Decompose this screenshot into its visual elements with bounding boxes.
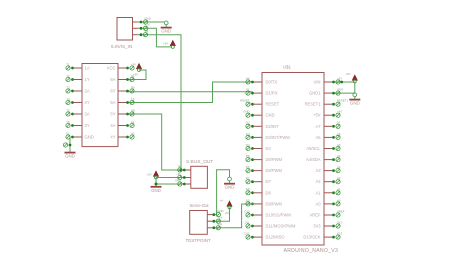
junction cluster arduino D3/INT/PWM (246, 132, 254, 140)
connector J1 pin 3 (133, 34, 138, 36)
arduino left pin D9/PWM (254, 203, 262, 205)
arduino right pin RESET1 (324, 103, 332, 105)
svg-text:+A: +A (220, 199, 224, 203)
IC U2 left pin GND (74, 136, 82, 138)
svg-text:+5V: +5V (225, 211, 230, 215)
IC U2 right pin 6A (118, 79, 126, 81)
junction cluster arduino D5/PWM (246, 154, 254, 162)
svg-text:+5V: +5V (147, 172, 152, 176)
wire +5V to servo pin2 (212, 208, 229, 222)
IC U2 right pin 4A (118, 125, 126, 127)
junction cluster J1 pin 3 (140, 29, 149, 37)
IC U2 left pin 2Y (74, 102, 82, 104)
ground symbol under U2 (65, 147, 76, 158)
junction cluster S.BUS_OUT pin 1 (178, 164, 186, 172)
arduino right pin A1 (324, 192, 332, 194)
svg-text:5A: 5A (110, 100, 115, 105)
svg-text:RESET: RESET (266, 102, 280, 107)
junction cluster U2 2A (66, 85, 74, 93)
junction cluster arduino A5/SCL (332, 143, 341, 151)
svg-text:D1: D1 (246, 88, 250, 92)
arduino right pin A3 (324, 170, 332, 172)
wire +5V to S.BUS_OUT pin2 (156, 177, 186, 179)
ground symbol right of arduino (349, 93, 360, 106)
junction cluster U2 4A (126, 120, 135, 128)
IC U2 right pin VCC (118, 67, 126, 69)
svg-text:+5V: +5V (176, 172, 181, 176)
junction cluster arduino A7 (332, 121, 341, 129)
junction at S.BUS_OUT gnd (155, 183, 158, 186)
ground symbol above servo (224, 177, 235, 190)
svg-text:5Y: 5Y (110, 112, 115, 117)
svg-text:1A: 1A (85, 66, 90, 71)
arduino right pin A0 (324, 203, 332, 205)
wire 5Y to S.BUS_OUT pin1 (126, 114, 186, 170)
svg-text:RESET1: RESET1 (337, 99, 348, 103)
svg-text:A7: A7 (337, 121, 341, 125)
connector S.BUS_OUT body (191, 166, 208, 188)
arduino left pin D1/RX (254, 92, 262, 94)
junction cluster arduino D9/PWM (246, 198, 254, 206)
svg-text:A6: A6 (315, 135, 321, 140)
svg-text:A0: A0 (315, 201, 321, 206)
svg-text:D7: D7 (246, 176, 250, 180)
IC U2 right pin 6Y (118, 90, 126, 92)
arduino left pin D5/PWM (254, 159, 262, 161)
svg-text:D0/TX: D0/TX (266, 80, 278, 85)
wire +5V to GND1 stub (354, 82, 356, 93)
svg-text:6A: 6A (110, 77, 115, 82)
arduino right pin +5V (324, 114, 332, 116)
svg-text:A5/SCL: A5/SCL (306, 146, 321, 151)
svg-text:D3/INT/PWM: D3/INT/PWM (266, 135, 291, 140)
junction on VIN wire (340, 81, 343, 84)
junction cluster arduino A6 (332, 132, 341, 140)
supply +5V at VIN (346, 72, 358, 83)
svg-text:GND: GND (151, 188, 161, 193)
svg-text:A1: A1 (315, 190, 321, 195)
svg-text:VCC: VCC (107, 66, 116, 71)
wire J1 pin1 to GND (138, 21, 165, 23)
svg-text:RESET1: RESET1 (305, 102, 322, 107)
junction cluster U2 1A (66, 62, 74, 70)
svg-text:A6: A6 (337, 132, 341, 136)
IC U2 right pin 5A (118, 102, 126, 104)
junction cluster arduino GND1 (332, 88, 343, 96)
arduino left pin D6/PWM (254, 170, 262, 172)
arduino right pin A5/SCL (324, 148, 332, 150)
svg-text:A5: A5 (337, 143, 341, 147)
junction cluster arduino D7 (246, 176, 254, 184)
svg-text:1Y: 1Y (85, 77, 90, 82)
svg-text:AREF: AREF (337, 209, 345, 213)
svg-text:D4: D4 (246, 143, 250, 147)
svg-text:D11: D11 (245, 220, 250, 224)
svg-text:GND: GND (337, 88, 343, 92)
junction cluster arduino VIN (332, 76, 342, 84)
svg-text:ARDUINO_NANO_V3: ARDUINO_NANO_V3 (284, 248, 339, 254)
svg-text:D2: D2 (246, 121, 250, 125)
connector J1 pin 2 (133, 27, 138, 29)
arduino left pin D2/INT (254, 125, 262, 127)
supply +5V at U2 VCC (133, 64, 142, 77)
svg-text:SB: SB (178, 164, 182, 168)
svg-text:TX: TX (131, 97, 135, 101)
arduino right pin 3V3 (324, 225, 332, 227)
connector J1 pin 1 (133, 21, 138, 23)
connector J1 5.8V/5_IN body (117, 18, 133, 41)
svg-text:A0: A0 (337, 198, 341, 202)
svg-text:GND: GND (175, 178, 181, 182)
svg-text:5.8V/5_IN: 5.8V/5_IN (111, 44, 133, 50)
IC U2 left pin 3A (74, 113, 82, 115)
wire GND to S.BUS_OUT pin3 (156, 183, 186, 185)
svg-text:TESTPOINT: TESTPOINT (186, 238, 212, 243)
svg-text:D10/SS/PWM: D10/SS/PWM (266, 213, 292, 218)
junction cluster U2 6Y (126, 85, 135, 93)
svg-text:A2: A2 (131, 120, 135, 124)
svg-text:GND1: GND1 (309, 91, 321, 96)
connector S.BUS_OUT pin 2 (186, 177, 191, 179)
svg-text:D12: D12 (244, 232, 250, 236)
svg-text:U$1: U$1 (283, 65, 291, 70)
svg-text:A4/SDA: A4/SDA (306, 157, 321, 162)
arduino left pin D4 (254, 148, 262, 150)
supply +5V at S.BUS_OUT (147, 171, 159, 179)
svg-text:A7: A7 (315, 124, 321, 129)
junction cluster arduino GND (243, 110, 254, 118)
svg-text:GND: GND (85, 135, 94, 140)
svg-text:A4: A4 (337, 154, 341, 158)
supply +5V above servo pin2 (225, 201, 233, 215)
svg-text:A1: A1 (337, 187, 341, 191)
junction cluster arduino D13/SCK (332, 232, 342, 240)
svg-text:T2: T2 (66, 74, 70, 78)
junction cluster arduino D0/TX (246, 76, 254, 84)
wire 6Y to arduino D1/RX (126, 91, 253, 93)
junction cluster arduino A3 (332, 165, 341, 173)
svg-text:SIG: SIG (217, 222, 222, 226)
svg-text:+5V: +5V (337, 110, 342, 114)
svg-text:Servo-Out: Servo-Out (190, 203, 210, 208)
svg-text:SB: SB (145, 29, 149, 33)
junction cluster arduino A4/SDA (332, 154, 341, 162)
arduino left pin D3/INT/PWM (254, 136, 262, 138)
svg-text:D12/MISO: D12/MISO (266, 235, 285, 240)
svg-text:+5V: +5V (337, 76, 342, 80)
IC U2 right pin 5Y (118, 113, 126, 115)
junction cluster arduino D2/INT (246, 121, 254, 129)
wire U2 GND pin down (69, 137, 71, 152)
svg-text:T6: T6 (66, 120, 70, 124)
svg-text:GND: GND (217, 209, 223, 213)
svg-text:D0: D0 (246, 76, 250, 80)
junction cluster U2 5A (126, 97, 135, 105)
svg-text:A3: A3 (131, 131, 135, 135)
arduino left pin D12/MISO (254, 236, 262, 238)
junction cluster arduino 3V3 (332, 220, 342, 228)
svg-text:+5V: +5V (131, 62, 136, 66)
IC U2 left pin 1A (74, 67, 82, 69)
junction cluster U2 3Y (66, 120, 74, 128)
arduino left pin D10/SS/PWM (254, 214, 262, 216)
junction cluster Servo-Out pin 3 (212, 222, 222, 230)
arduino left pin GND (254, 114, 262, 116)
junction cluster arduino A1 (332, 187, 341, 195)
svg-text:3A: 3A (85, 112, 90, 117)
svg-text:+5V: +5V (163, 42, 168, 46)
arduino left pin D11/MOSI/PWM (254, 225, 262, 227)
junction cluster U2 1Y (66, 74, 74, 82)
svg-text:D9: D9 (246, 198, 250, 202)
svg-text:T1: T1 (66, 62, 70, 66)
svg-text:GND: GND (225, 185, 235, 190)
svg-text:A2: A2 (315, 179, 321, 184)
ground symbol left of S.BUS_OUT (151, 187, 162, 193)
wire Servo-Out pin1 to GND (212, 170, 229, 215)
connector S.BUS_OUT pin 3 (186, 183, 191, 185)
svg-text:GND: GND (161, 29, 171, 34)
svg-text:GND: GND (243, 110, 249, 114)
junction cluster on U2 GND wire (63, 143, 71, 147)
junction cluster arduino RESET (240, 99, 254, 107)
arduino right pin A4/SDA (324, 159, 332, 161)
svg-text:GND: GND (65, 154, 75, 159)
svg-text:A3: A3 (337, 165, 341, 169)
svg-text:SB: SB (131, 108, 135, 112)
connector Servo-Out body (190, 211, 208, 235)
connector Servo-Out pin 1 (207, 214, 212, 216)
svg-text:T4: T4 (66, 97, 70, 101)
svg-text:S.BUS_OUT: S.BUS_OUT (186, 159, 213, 165)
arduino left pin D7 (254, 181, 262, 183)
arduino left pin RESET (254, 103, 262, 105)
svg-text:4Y: 4Y (110, 135, 115, 140)
svg-text:G1: G1 (66, 131, 70, 135)
arduino right pin A2 (324, 181, 332, 183)
IC U2 left pin 3Y (74, 125, 82, 127)
wire J1 pin3 S.BUS net vertical (138, 35, 182, 170)
svg-text:RX: RX (131, 85, 135, 89)
junction cluster arduino +5V (332, 110, 342, 118)
svg-text:3Y: 3Y (85, 123, 90, 128)
junction cluster U2 2Y (66, 97, 74, 105)
IC U2 left pin 2A (74, 90, 82, 92)
svg-text:GND: GND (145, 16, 151, 20)
svg-text:D10: D10 (244, 209, 250, 213)
junction cluster arduino A0 (332, 198, 341, 206)
arduino right pin A6 (324, 136, 332, 138)
svg-text:+5V: +5V (145, 23, 150, 27)
svg-text:AREF: AREF (310, 213, 321, 218)
svg-text:3V3: 3V3 (337, 220, 342, 224)
svg-text:A3: A3 (315, 168, 321, 173)
junction cluster U2 VCC (126, 62, 136, 70)
arduino left pin D8 (254, 192, 262, 194)
junction cluster arduino D4 (246, 143, 254, 151)
junction cluster U2 GND (66, 131, 74, 139)
ground symbol at J1 pin1 (161, 21, 172, 34)
svg-text:D13: D13 (337, 232, 343, 236)
junction cluster S.BUS_OUT pin 2 (176, 172, 185, 180)
svg-text:RESET: RESET (240, 99, 250, 103)
junction cluster arduino D8 (246, 187, 254, 195)
svg-text:D8: D8 (266, 190, 272, 195)
svg-text:D6/PWM: D6/PWM (266, 168, 283, 173)
junction cluster U2 6A (126, 74, 135, 82)
arduino right pin D13/SCK (324, 236, 332, 238)
junction cluster arduino D10/SS/PWM (244, 209, 254, 217)
arduino right pin VIN (324, 81, 332, 83)
svg-text:D4: D4 (266, 146, 272, 151)
svg-text:GND: GND (350, 101, 360, 106)
svg-text:D5/PWM: D5/PWM (266, 157, 283, 162)
junction cluster U2 3A (66, 108, 74, 116)
junction cluster arduino D12/MISO (244, 232, 254, 240)
wire +5V to 6A (126, 70, 146, 80)
wire gnd stub S.BUS_OUT (155, 178, 157, 187)
svg-text:VIN: VIN (314, 80, 321, 85)
junction cluster U2 4Y (126, 131, 135, 139)
junction S.BUS out node (180, 169, 183, 172)
svg-text:GND: GND (266, 113, 275, 118)
wire VIN to +5V (332, 81, 355, 83)
svg-text:D3: D3 (246, 132, 250, 136)
svg-text:N1: N1 (131, 74, 135, 78)
svg-text:D7: D7 (266, 179, 272, 184)
svg-text:D1/RX: D1/RX (266, 91, 278, 96)
supply +5V at J1 pin2 (163, 40, 175, 48)
svg-text:2Y: 2Y (85, 100, 90, 105)
junction cluster Servo-Out pin 2 (212, 216, 222, 224)
junction cluster arduino RESET1 (332, 99, 348, 107)
svg-text:D5: D5 (246, 154, 250, 158)
junction cluster Servo-Out pin 1 (212, 209, 223, 217)
svg-text:D13/SCK: D13/SCK (303, 235, 320, 240)
svg-text:D6: D6 (246, 165, 250, 169)
junction cluster arduino D1/RX (246, 88, 254, 96)
wire 5A to arduino D0/TX (126, 82, 254, 103)
IC U2 right pin 4Y (118, 136, 126, 138)
svg-text:T5: T5 (66, 108, 70, 112)
wire J1 pin2 to +5V (138, 28, 172, 47)
junction cluster arduino D11/MOSI/PWM (245, 220, 254, 228)
arduino right pin AREF (324, 214, 332, 216)
svg-text:+5V: +5V (313, 113, 321, 118)
wire GND1 (332, 92, 355, 94)
svg-text:D9/PWM: D9/PWM (266, 201, 283, 206)
junction cluster S.BUS_OUT pin 3 (175, 178, 186, 186)
arduino left pin D0/TX (254, 81, 262, 83)
svg-text:6Y: 6Y (110, 89, 115, 94)
connector Servo-Out pin 3 (207, 227, 212, 229)
connector Servo-Out pin 2 (207, 220, 212, 222)
svg-text:T3: T3 (66, 85, 70, 89)
junction cluster arduino A2 (332, 176, 341, 184)
connector S.BUS_OUT pin 1 (186, 169, 191, 171)
wire servo pin3 to arduino D9 (212, 204, 254, 228)
junction cluster J1 pin 2 (140, 23, 150, 31)
IC U2 left pin 1Y (74, 79, 82, 81)
svg-text:D2/INT: D2/INT (266, 124, 279, 129)
svg-text:4A: 4A (110, 123, 115, 128)
junction cluster U2 5Y (126, 108, 135, 116)
junction cluster J1 pin 1 (140, 16, 151, 24)
arduino right pin GND1 (324, 92, 332, 94)
arduino right pin A7 (324, 125, 332, 127)
junction cluster arduino D6/PWM (246, 165, 254, 173)
arduino U$1 body (262, 73, 324, 246)
svg-text:2A: 2A (85, 89, 90, 94)
svg-text:D8: D8 (246, 187, 250, 191)
svg-text:D11/MOSI/PWM: D11/MOSI/PWM (266, 224, 297, 229)
svg-text:A2: A2 (337, 176, 341, 180)
IC U2 hex inverter body (82, 64, 118, 147)
junction cluster arduino AREF (332, 209, 345, 217)
svg-text:+5V: +5V (217, 216, 222, 220)
svg-text:3V3: 3V3 (313, 224, 321, 229)
svg-text:+5V: +5V (346, 72, 351, 76)
